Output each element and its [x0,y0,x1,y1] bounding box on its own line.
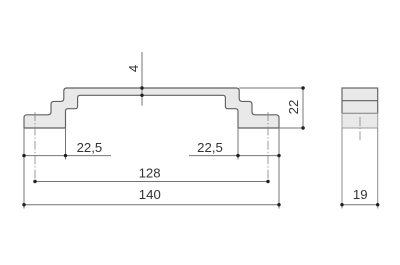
side view extension right [377,128,379,209]
svg-text:140: 140 [139,187,161,202]
side view body [342,88,378,128]
dimension 22,5 right line [189,155,279,157]
dimension 22 extension top [239,87,305,89]
dimension 140 line [24,204,279,206]
dimension 22 line [302,88,304,128]
extension line right foot outer edge [278,128,280,209]
side view divider [342,100,378,102]
dimension 4 line [141,52,143,106]
extension line left foot outer edge [23,128,25,209]
hole centerline right [267,112,269,182]
dimension 128 line [35,181,268,183]
svg-text:4: 4 [126,65,141,72]
side view centerline [359,117,361,140]
extension line right foot inner edge [237,128,239,160]
side view lower band [342,113,378,128]
svg-text:22,5: 22,5 [197,140,223,155]
dimension 19 line [342,204,378,206]
svg-text:22,5: 22,5 [77,140,103,155]
dimension 22,5 left line [24,155,111,157]
side view upper outline [342,88,378,113]
extension line left foot inner edge [65,128,67,160]
svg-text:19: 19 [353,187,368,202]
side view extension left [341,128,343,209]
dimension 22 extension bottom [279,127,305,129]
svg-text:22: 22 [286,100,301,115]
svg-text:128: 128 [139,166,161,181]
handle profile front view [24,88,279,128]
hole centerline left [34,112,36,182]
